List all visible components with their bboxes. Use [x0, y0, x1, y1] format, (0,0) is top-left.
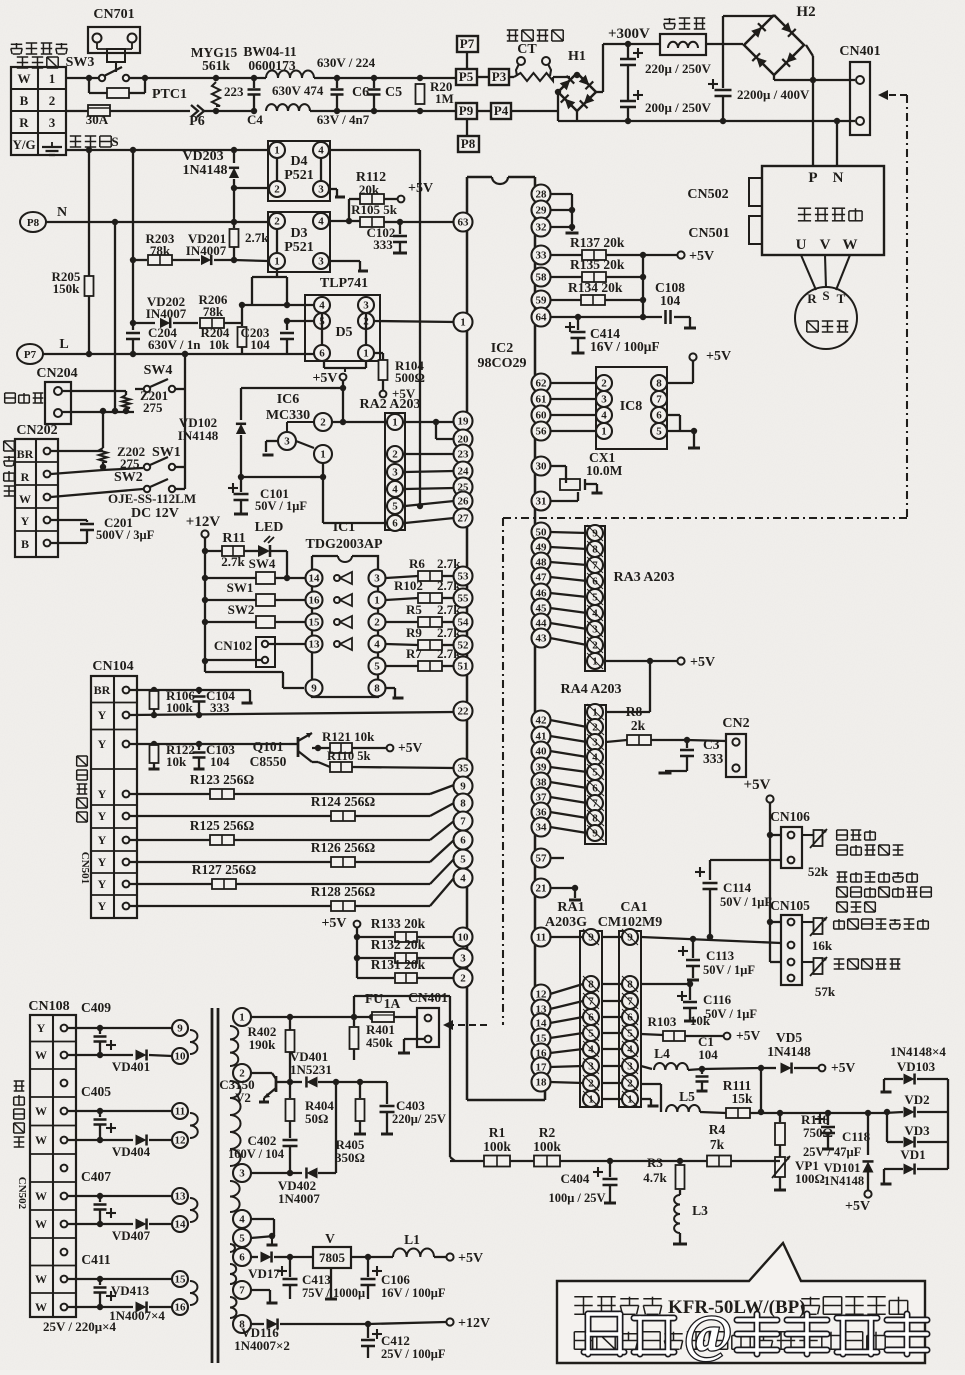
- svg-text:+5V: +5V: [736, 1028, 760, 1043]
- wire IC2 pin11 to RA1 pin9: [550, 936, 583, 938]
- svg-text:P8: P8: [461, 136, 476, 151]
- svg-text:U: U: [796, 237, 807, 253]
- resistor R106 100k: [150, 691, 159, 709]
- svg-text:630V / 1n: 630V / 1n: [148, 337, 201, 352]
- resistor R204 10k: [241, 305, 243, 326]
- svg-text:3: 3: [374, 573, 380, 585]
- svg-text:333: 333: [703, 751, 724, 766]
- svg-text:R121 10k: R121 10k: [322, 729, 375, 744]
- svg-text:5: 5: [374, 661, 380, 673]
- svg-text:9: 9: [177, 1023, 183, 1035]
- svg-text:10: 10: [458, 932, 470, 944]
- capacitor C116 50V/1μF: [677, 995, 687, 997]
- svg-text:4: 4: [318, 145, 324, 157]
- capacitor C404 100μ/25V: [593, 1171, 603, 1173]
- wire D4 pin4 right: [329, 149, 420, 151]
- svg-text:4: 4: [392, 484, 398, 496]
- svg-text:R126 256Ω: R126 256Ω: [311, 840, 376, 855]
- svg-text:V2: V2: [235, 1090, 251, 1105]
- svg-text:16k: 16k: [812, 938, 833, 953]
- svg-text:13: 13: [309, 639, 321, 651]
- svg-text:P8: P8: [27, 217, 40, 229]
- svg-text:OJE-SS-112LM: OJE-SS-112LM: [108, 491, 196, 506]
- svg-text:7k: 7k: [710, 1137, 725, 1152]
- svg-text:21: 21: [536, 883, 547, 895]
- svg-text:1N4148: 1N4148: [767, 1044, 811, 1059]
- svg-text:55: 55: [458, 593, 470, 605]
- svg-text:DC 12V: DC 12V: [131, 506, 179, 521]
- svg-text:P9: P9: [459, 103, 474, 118]
- svg-text:P: P: [808, 170, 817, 186]
- svg-text:1N4148: 1N4148: [824, 1174, 864, 1188]
- svg-text:11: 11: [175, 1106, 185, 1118]
- svg-text:2.7k: 2.7k: [221, 554, 245, 569]
- svg-text:Y: Y: [98, 899, 107, 913]
- svg-text:7: 7: [460, 816, 466, 828]
- svg-text:2: 2: [49, 93, 56, 108]
- svg-text:V: V: [820, 237, 831, 253]
- varistor Z202 275: [102, 411, 104, 448]
- capacitor C102 333: [399, 222, 401, 234]
- power module 功率模块: [762, 166, 884, 255]
- svg-text:IC6: IC6: [277, 392, 300, 407]
- capacitor C104 333: [198, 690, 200, 694]
- svg-text:2: 2: [274, 216, 280, 228]
- svg-text:4: 4: [318, 216, 324, 228]
- svg-text:R124 256Ω: R124 256Ω: [311, 794, 376, 809]
- wire D5 pin3 gnd: [374, 304, 382, 306]
- svg-text:2: 2: [592, 722, 598, 734]
- wires RA2 to IC2 pins: [405, 421, 436, 423]
- IC2 left pins: [454, 213, 473, 232]
- svg-text:VD404: VD404: [112, 1144, 151, 1159]
- svg-text:CN401: CN401: [839, 44, 880, 59]
- svg-text:R: R: [807, 291, 817, 306]
- svg-text:56: 56: [536, 426, 548, 438]
- svg-text:59: 59: [536, 295, 548, 307]
- svg-text:R123 256Ω: R123 256Ω: [190, 772, 255, 787]
- svg-text:VD101: VD101: [824, 1161, 861, 1175]
- svg-text:B: B: [21, 537, 29, 551]
- svg-text:IN4148: IN4148: [178, 428, 219, 443]
- svg-text:L: L: [59, 337, 68, 352]
- svg-text:6: 6: [592, 783, 598, 795]
- capacitor C6: [334, 75, 340, 81]
- resistor R205 150k: [88, 150, 90, 276]
- ground IC8 pin5: [667, 430, 694, 432]
- svg-text:16V / 100μF: 16V / 100μF: [381, 1286, 446, 1300]
- svg-text:333: 333: [210, 700, 230, 715]
- wire IC2 pin57: [550, 857, 564, 859]
- svg-text:R135 20k: R135 20k: [570, 257, 625, 272]
- svg-text:3: 3: [284, 436, 290, 448]
- current transformer CT 电流检测: [507, 29, 518, 31]
- svg-text:25V / 220μ×4: 25V / 220μ×4: [43, 1319, 117, 1334]
- svg-text:IC8: IC8: [620, 399, 643, 414]
- wire SW right rail: [182, 351, 188, 357]
- svg-text:W: W: [19, 492, 31, 506]
- svg-text:SW2: SW2: [228, 602, 255, 617]
- capacitor C412 25V/100μF: [372, 1333, 382, 1335]
- svg-text:9: 9: [460, 781, 466, 793]
- svg-text:57k: 57k: [815, 984, 836, 999]
- svg-text:RA3 A203: RA3 A203: [613, 570, 674, 585]
- svg-text:1: 1: [274, 145, 280, 157]
- dash-dot boundary right: [906, 95, 908, 518]
- svg-text:W: W: [843, 237, 858, 253]
- svg-text:333: 333: [373, 237, 393, 252]
- resistor 2.7k vertical: [233, 222, 235, 228]
- svg-text:104: 104: [698, 1047, 718, 1062]
- wire VD203 to D4 pin2: [234, 187, 268, 189]
- wire to RA4 pin1: [649, 661, 651, 712]
- svg-text:52k: 52k: [808, 864, 829, 879]
- svg-text:54: 54: [458, 617, 470, 629]
- svg-text:C114: C114: [723, 880, 752, 895]
- svg-text:7: 7: [592, 798, 598, 810]
- svg-text:R105 5k: R105 5k: [351, 202, 398, 217]
- svg-text:47: 47: [536, 572, 548, 584]
- svg-text:223: 223: [224, 84, 244, 99]
- svg-text:VD413: VD413: [111, 1283, 150, 1298]
- ground IC6 pin3: [266, 440, 278, 442]
- svg-text:IN4007: IN4007: [186, 243, 227, 258]
- wire Y row3 R122 C103 Q101: [130, 743, 289, 745]
- compressor 压缩机 R S T: [801, 255, 816, 290]
- wire CN204-1 to Z201: [62, 390, 126, 392]
- svg-text:R: R: [19, 115, 29, 130]
- svg-text:L5: L5: [679, 1089, 695, 1104]
- svg-text:8: 8: [592, 813, 598, 825]
- diode cluster right rail: [947, 1079, 949, 1169]
- svg-text:50V / 1μF: 50V / 1μF: [705, 1007, 757, 1021]
- svg-text:100k: 100k: [483, 1139, 511, 1154]
- wire H2 bottom to CN401: [773, 74, 775, 80]
- svg-text:1: 1: [601, 426, 607, 438]
- svg-text:W: W: [35, 1104, 47, 1118]
- svg-text:25V / 47μF: 25V / 47μF: [803, 1145, 862, 1159]
- svg-text:R128 256Ω: R128 256Ω: [311, 884, 376, 899]
- resistor R20 1M: [374, 77, 456, 79]
- svg-text:VD2: VD2: [904, 1092, 929, 1107]
- svg-text:14: 14: [175, 1219, 187, 1231]
- svg-text:P7: P7: [24, 349, 37, 361]
- svg-text:3: 3: [460, 953, 466, 965]
- svg-text:C403: C403: [396, 1098, 425, 1113]
- resistor R104 500Ω: [374, 352, 383, 354]
- reactor 电抗器 box: [664, 18, 675, 20]
- svg-text:1: 1: [49, 71, 56, 86]
- svg-text:150k: 150k: [53, 281, 81, 296]
- svg-text:L3: L3: [692, 1203, 708, 1218]
- svg-text:+300V: +300V: [608, 26, 650, 42]
- wire D3 pin4 to R105: [329, 220, 349, 222]
- wire H1 right to +300V: [596, 91, 603, 93]
- svg-text:+5V: +5V: [689, 249, 714, 264]
- svg-text:H1: H1: [568, 49, 586, 64]
- svg-text:CN104: CN104: [92, 659, 133, 674]
- wire H1 left to P4 line: [511, 110, 558, 112]
- ground CN401: [404, 1038, 424, 1040]
- svg-text:W: W: [35, 1217, 47, 1231]
- svg-text:30: 30: [536, 461, 548, 473]
- svg-text:10k: 10k: [690, 1013, 711, 1028]
- wire S vertical: [132, 150, 134, 323]
- svg-text:+5V: +5V: [458, 1251, 483, 1266]
- svg-text:Y: Y: [98, 833, 107, 847]
- wire Y row2 to IC2 pin22: [130, 712, 454, 715]
- svg-text:9: 9: [311, 683, 317, 695]
- wire H1 bottom: [576, 110, 578, 121]
- svg-text:630V / 224: 630V / 224: [317, 55, 376, 70]
- svg-text:20k: 20k: [359, 182, 380, 197]
- svg-text:3: 3: [239, 1168, 245, 1180]
- wire lower rail to CN401: [628, 120, 837, 122]
- wire pin28 group: [550, 193, 572, 195]
- svg-text:2: 2: [460, 973, 466, 985]
- svg-text:RA1: RA1: [557, 900, 584, 915]
- connector P5 box: [456, 69, 477, 85]
- svg-text:R1: R1: [489, 1125, 506, 1140]
- svg-text:500V / 3μF: 500V / 3μF: [96, 528, 155, 542]
- svg-text:4: 4: [319, 300, 325, 312]
- svg-text:VD1: VD1: [900, 1147, 925, 1162]
- +5V IC8 pin8: [667, 382, 693, 384]
- svg-text:B: B: [20, 93, 29, 108]
- svg-text:A203G: A203G: [545, 915, 587, 930]
- capacitor C118: [815, 1118, 825, 1120]
- svg-text:8: 8: [460, 798, 466, 810]
- optocoupler D4 P521: [268, 141, 330, 201]
- svg-text:BW04-11: BW04-11: [243, 44, 297, 59]
- svg-text:Y: Y: [98, 855, 107, 869]
- wire fuse node to R1 row: [353, 996, 355, 1017]
- svg-text:+5V: +5V: [321, 916, 346, 931]
- connector P4 box: [477, 110, 491, 112]
- svg-text:Y: Y: [98, 787, 107, 801]
- svg-text:+5V: +5V: [690, 655, 715, 670]
- svg-text:C118: C118: [842, 1129, 871, 1144]
- svg-text:1N4148: 1N4148: [182, 163, 227, 178]
- notes 该三种感温头: [837, 871, 848, 873]
- svg-text:SW4: SW4: [144, 363, 173, 378]
- svg-text:R132 20k: R132 20k: [371, 937, 426, 952]
- capacitor C203 104: [287, 320, 305, 322]
- wire N: [46, 221, 268, 223]
- svg-text:CN2: CN2: [722, 716, 749, 731]
- svg-text:P521: P521: [284, 240, 314, 255]
- wires IC2 to IC8: [550, 382, 596, 384]
- wire N to power module: [836, 121, 838, 166]
- resistor PTC1: [88, 78, 90, 93]
- svg-text:16V / 100μF: 16V / 100μF: [590, 339, 660, 354]
- svg-text:1N5231: 1N5231: [290, 1062, 332, 1077]
- svg-text:1: 1: [392, 417, 398, 429]
- svg-text:CN202: CN202: [16, 423, 57, 438]
- connector P7 box: [457, 36, 478, 52]
- wire L row: [43, 353, 314, 355]
- ground IC2 pin21: [550, 887, 575, 889]
- svg-text:P4: P4: [494, 103, 509, 118]
- svg-text:42: 42: [536, 715, 548, 727]
- svg-text:VD203: VD203: [182, 149, 223, 164]
- label 压缩机温度感温头: [837, 829, 848, 831]
- label 去功率模块CN501 vertical: [77, 755, 88, 757]
- svg-text:R8: R8: [626, 704, 643, 719]
- wire D5 pin4 row: [242, 304, 314, 306]
- svg-text:29: 29: [536, 205, 548, 217]
- svg-text:3: 3: [318, 256, 324, 268]
- svg-text:8: 8: [374, 683, 380, 695]
- svg-text:C4: C4: [247, 112, 263, 127]
- svg-text:R6: R6: [409, 556, 425, 571]
- svg-text:19: 19: [458, 416, 470, 428]
- capacitor 2200μ/400V: [708, 83, 718, 85]
- svg-text:TDG2003AP: TDG2003AP: [306, 537, 383, 552]
- svg-text:57: 57: [536, 853, 548, 865]
- wire W line: [145, 77, 216, 79]
- svg-text:5: 5: [392, 501, 398, 513]
- resistor R112 20k: [348, 199, 350, 221]
- svg-text:R133 20k: R133 20k: [371, 916, 426, 931]
- wire IC6 pin1 to RA2 pin6: [323, 522, 391, 524]
- svg-text:275: 275: [143, 400, 163, 415]
- svg-text:34: 34: [536, 822, 548, 834]
- capacitor C106 16V/100μF: [372, 1270, 382, 1272]
- svg-text:T: T: [837, 291, 846, 306]
- svg-text:CN501: CN501: [688, 226, 729, 241]
- svg-text:15k: 15k: [731, 1091, 753, 1106]
- svg-text:104: 104: [660, 293, 681, 308]
- svg-text:+12V: +12V: [186, 514, 221, 530]
- svg-text:63V / 4n7: 63V / 4n7: [317, 112, 370, 127]
- capacitor C101 50V/1μF: [228, 487, 238, 489]
- svg-text:1: 1: [460, 317, 466, 329]
- svg-text:160V / 104: 160V / 104: [228, 1147, 285, 1161]
- svg-text:61: 61: [536, 394, 547, 406]
- svg-text:1: 1: [374, 595, 380, 607]
- svg-text:1: 1: [627, 1094, 633, 1106]
- svg-text:2: 2: [320, 417, 326, 429]
- svg-text:58: 58: [536, 272, 548, 284]
- svg-text:@: @: [684, 1306, 732, 1363]
- svg-text:4: 4: [374, 639, 380, 651]
- capacitor C201 500V/3μF: [51, 519, 87, 521]
- svg-text:R127 256Ω: R127 256Ω: [192, 862, 257, 877]
- thermistor pipe sensor: [814, 958, 823, 974]
- svg-text:50V / 1μF: 50V / 1μF: [703, 963, 755, 977]
- +5V terminal wire at D5: [344, 368, 346, 372]
- svg-text:6: 6: [319, 348, 325, 360]
- svg-text:32: 32: [536, 222, 548, 234]
- svg-text:10: 10: [175, 1051, 187, 1063]
- varistor Z201 275: [125, 391, 127, 395]
- IC2 right pins: [532, 185, 551, 204]
- wire IC6 pin1 down: [322, 463, 324, 477]
- svg-text:LED: LED: [255, 520, 284, 535]
- wire CN102 bottom to pin9: [204, 661, 206, 672]
- wire D5 pin1 down: [365, 361, 367, 368]
- svg-text:VD17: VD17: [248, 1266, 280, 1281]
- svg-text:5: 5: [656, 426, 662, 438]
- optocoupler D3 P521: [268, 212, 330, 272]
- capacitor C204 630V/1n: [132, 323, 134, 330]
- svg-text:Y: Y: [98, 737, 107, 751]
- svg-text:CM102M9: CM102M9: [598, 915, 663, 930]
- capacitor C413 75V/1000μ: [277, 1270, 287, 1272]
- svg-text:62: 62: [536, 378, 548, 390]
- svg-text:13: 13: [175, 1191, 187, 1203]
- capacitor C113 50V/1μF: [690, 936, 696, 942]
- svg-text:C405: C405: [81, 1084, 111, 1099]
- svg-text:350Ω: 350Ω: [335, 1150, 365, 1165]
- svg-text:C3: C3: [703, 737, 720, 752]
- svg-text:C106: C106: [381, 1272, 410, 1287]
- svg-text:53: 53: [458, 571, 470, 583]
- svg-text:7: 7: [239, 1285, 245, 1297]
- svg-text:R9: R9: [406, 625, 422, 640]
- wire P to power module: [812, 80, 814, 166]
- svg-text:C413: C413: [302, 1272, 331, 1287]
- fuse 30A: [66, 110, 88, 112]
- svg-text:W: W: [35, 1189, 47, 1203]
- svg-text:Y/G: Y/G: [12, 137, 35, 152]
- svg-text:L4: L4: [654, 1046, 670, 1061]
- svg-text:BR: BR: [94, 683, 111, 697]
- capacitor C409 cap: [99, 1028, 101, 1034]
- svg-text:R125 256Ω: R125 256Ω: [190, 818, 255, 833]
- C114 branch: [710, 859, 781, 861]
- svg-text:+5V: +5V: [831, 1060, 855, 1075]
- wire R1 R2 row: [450, 1160, 485, 1162]
- transformer primary taps: [233, 1008, 251, 1026]
- wire H2 top to 2200μ cap: [723, 15, 774, 17]
- svg-text:Y: Y: [98, 708, 107, 722]
- capacitor C4: [251, 75, 257, 81]
- IC IC8: [596, 367, 667, 449]
- svg-text:R131 20k: R131 20k: [371, 957, 426, 972]
- svg-text:3: 3: [318, 184, 324, 196]
- svg-text:W: W: [35, 1048, 47, 1062]
- svg-text:IN4007: IN4007: [146, 306, 187, 321]
- svg-text:5: 5: [460, 854, 466, 866]
- capacitor C114 50V/1μF: [790, 863, 792, 865]
- capacitor C414 16V/100μF: [575, 314, 581, 320]
- capacitor C103 104: [198, 744, 200, 750]
- svg-text:C8550: C8550: [250, 754, 287, 769]
- svg-text:5: 5: [592, 767, 598, 779]
- thermistor outdoor sensor: [814, 918, 823, 934]
- svg-text:14: 14: [309, 573, 321, 585]
- inverter gates: [334, 575, 340, 581]
- wire BR row: [51, 450, 103, 452]
- wire signal S line: [66, 149, 268, 151]
- wires IC2 42-34 to RA4: [550, 720, 587, 727]
- svg-text:561k: 561k: [202, 58, 230, 73]
- ground D4 pin3: [329, 188, 337, 190]
- label 室外温度感温头: [838, 919, 840, 929]
- svg-text:CN701: CN701: [93, 7, 134, 22]
- thermistor compressor sensor: [814, 830, 823, 846]
- svg-text:H2: H2: [796, 4, 815, 20]
- svg-text:R134 20k: R134 20k: [568, 280, 623, 295]
- svg-text:15: 15: [175, 1274, 187, 1286]
- svg-text:VD407: VD407: [112, 1228, 151, 1243]
- svg-text:SW3: SW3: [66, 55, 95, 70]
- svg-text:35: 35: [458, 763, 470, 775]
- wire N branch down: [114, 222, 116, 411]
- svg-text:C411: C411: [81, 1252, 111, 1267]
